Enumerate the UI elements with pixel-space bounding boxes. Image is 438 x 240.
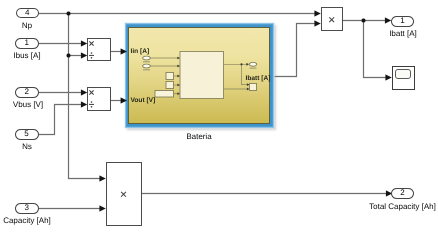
divide D2 multiply sign [89,90,93,94]
scope block [392,66,415,90]
arrowhead divide1 bottom input [81,52,87,58]
arrowhead bottom product bottom input [99,205,105,211]
wire divide1 out to Bateria Iin [111,51,123,53]
inner wire branch to right square [242,64,248,84]
inner oval A [143,56,151,60]
wire Vbus to divide2 [38,92,82,94]
label Ibus [A] [7,51,47,60]
junction node Np to divide1 [67,54,71,58]
divide block D1 [87,38,111,62]
label Bateria [169,132,229,141]
junction node product out [362,19,366,23]
arrowhead product bottom input [314,20,320,26]
bottom product multiply sign [121,192,126,197]
wire divide2 out to Bateria Vout [111,100,123,102]
inner wire wide to model [174,93,178,95]
arrowhead Ibatt outport [385,17,391,23]
inner wire oval A to model [151,57,178,59]
inport 2 Vbus [15,87,39,98]
arrowhead Bateria Iin input [121,48,127,54]
inport 4 Np [16,8,40,19]
outport 2 Total Capacity [391,188,414,199]
inner model rect [180,52,224,99]
inner wide rect [155,91,174,98]
inner square 1 [166,73,174,80]
wire Bateria Ibatt out up to product [274,24,316,77]
tiny caption under oval A [143,61,150,62]
label Ibatt [A] out [382,29,424,38]
label Ns [17,142,37,151]
label Capacity [Ah] [0,216,54,225]
Bateria inner label Vout [V] [131,97,156,104]
wire Np vertical branch down to bottom product [69,14,102,179]
wire Ns to divide2 divisor [39,105,83,135]
label Vbus [V] [7,100,49,109]
Bateria inner label Ibatt [A] [246,75,271,82]
inner wire sq1 to model [174,75,178,77]
arrowhead divide2 bottom input [81,101,87,107]
divide D1 divide sign [89,52,94,58]
divide block D2 [87,87,111,111]
inner arrowheads [177,57,180,60]
arrowhead bottom product top input [99,175,105,181]
inport 5 Ns [15,129,39,140]
junction node on Np wire [67,12,71,16]
wire Np branch to divide1 divisor [69,55,83,57]
Bateria subsystem block [125,23,274,128]
inner wire oval B to model [151,65,178,67]
bottom product block [106,162,142,226]
inner wire model out to oval C [224,63,247,65]
divide D2 divide sign [89,101,94,107]
arrowhead Bateria Vout input [121,97,127,103]
arrowhead scope input [385,74,391,80]
inner oval C [249,62,257,66]
arrowhead divide2 top input [81,89,87,95]
inner junction dot [240,63,242,65]
label Np [17,21,37,30]
wire Np horizontal to product input [39,13,316,15]
arrowhead Total Capacity outport [386,190,392,196]
Bateria yellow body [128,27,270,125]
inner right square [250,84,257,91]
outport 1 Ibatt [391,16,414,26]
product multiply sign [329,17,334,22]
wire Ibus to divide1 [38,43,82,45]
Bateria inner label Iin [A] [131,48,150,55]
product block (top right) [321,7,344,30]
wire branch down to scope [364,21,388,78]
wire bottom product out to Total Capacity outport [142,193,388,195]
arrowhead divide1 top input [81,40,87,46]
inner wire sq2 to model [174,84,178,86]
wire Capacity to bottom product [38,208,101,210]
inport 1 Ibus [15,38,39,49]
inner square 2 [166,82,174,89]
inner oval B [143,64,151,68]
inner wire model out2 to right square [224,88,248,90]
tiny caption under oval C [250,68,257,69]
divide D1 multiply sign [89,41,93,45]
label Total Capacity [Ah] [367,202,438,211]
wire product out to Ibatt outport [343,20,387,22]
arrowhead product top input [314,10,320,16]
scope screen [395,69,412,79]
inport 3 Capacity [15,203,39,214]
tiny caption under oval B [143,69,150,70]
